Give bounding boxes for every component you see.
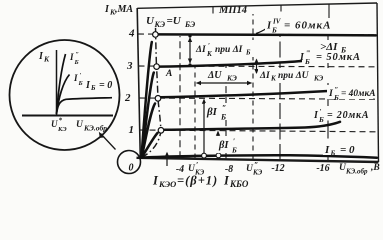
knee circle IV [153,32,159,38]
curve Ib'=20uA [142,122,341,158]
arrow beta Ib' at x=218 [217,132,219,154]
arrow dUke horizontal y=83 [197,82,252,84]
curve Ib'''=50uA [142,61,303,158]
gridline y=98 (Ik=2) [139,98,376,99]
dashed vertical U'ke x=195 [194,67,196,159]
gridline y=130 (Ik=1) [140,130,377,132]
x-axis [137,158,379,162]
curve Ib=0 [142,155,378,157]
svg-text:IК,МА: IК,МА [104,4,133,17]
top frame [137,3,377,8]
label backgrounds [265,18,346,31]
arrow beta Ib'' at x=204 [203,100,205,154]
svg-text:IБ= 0: IБ= 0 [85,80,112,92]
svg-text:0: 0 [129,163,134,174]
svg-text:1: 1 [129,124,135,136]
y-axis [137,8,140,159]
tick top x=281 [280,5,282,11]
dashed vertical U''ke x=253 [252,14,254,160]
right frame [377,3,379,162]
dash-dot locus Uke=Ube [142,27,162,158]
gridline y=66 (Ik=3) [139,65,377,68]
gridline x=180 (-4V) [179,36,181,158]
arrow dIk' at x=190 [189,38,191,63]
svg-text:-16: -16 [316,163,329,174]
curve Ib''=40uA [142,91,329,158]
tick top x=213 [212,7,214,14]
svg-text:3: 3 [126,60,133,72]
svg-text:4: 4 [128,28,135,40]
inset big circle [10,40,120,150]
inset curve Ib'' [57,54,66,114]
gridline x=328 (-16V) [327,36,329,161]
curve Ib IV=60uA [142,34,377,157]
svg-text:A: A [165,69,172,79]
gridline y=34 (Ik=4) [138,33,376,36]
gridline x=280 (-12V) [279,36,281,160]
svg-text:-12: -12 [271,163,284,174]
tick top x=329 [328,4,330,19]
gridline x=226 (-8V) [225,64,227,159]
svg-text:МП14: МП14 [218,5,247,16]
inset curve Ib=0 [57,98,113,114]
svg-text:2: 2 [124,92,131,104]
circle on Ib=0 curve x=204 [202,153,207,158]
arrow dIk at x=256.5 [256,60,258,74]
arrow Ikeo at x=167 [166,153,168,166]
svg-text:IБ= 0: IБ= 0 [324,144,355,158]
inset x-axis [22,115,113,117]
inset y-axis [56,50,58,116]
leader Ib IV label [256,28,268,34]
dot on curve III x=190 [188,63,191,66]
callout arrow [101,134,116,150]
origin small circle [118,151,141,174]
knee circle II [155,96,161,102]
circle on Ib=0 curve x=218 [216,153,221,158]
knee circle I' [158,128,164,134]
dot on curve IV x=190 [188,34,191,37]
knee circle III [154,64,160,70]
inset curve Ib' [57,75,70,115]
